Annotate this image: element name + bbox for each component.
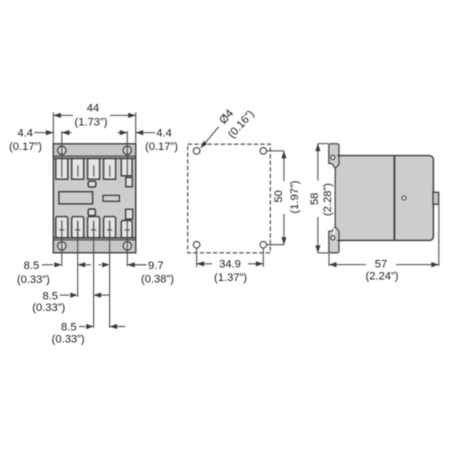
svg-text:(0.33”): (0.33”)	[52, 333, 85, 345]
arrowhead	[54, 262, 62, 267]
row1: 8.5 A-B	[42, 264, 53, 266]
bottom body line	[53, 237, 135, 239]
hole TR	[260, 148, 267, 155]
bottom hole left	[58, 242, 66, 250]
arrowhead	[128, 113, 136, 118]
body base	[53, 144, 135, 253]
hole BR	[260, 241, 267, 248]
top hole right	[123, 146, 131, 154]
label plate rect	[59, 192, 93, 204]
bottom tab hole	[331, 236, 335, 240]
plate hook edge over body, top	[335, 155, 339, 168]
small block right upper	[126, 178, 133, 187]
row1: 9.7 D-E	[99, 264, 101, 266]
svg-text:34.9: 34.9	[219, 258, 241, 270]
line D	[109, 223, 111, 328]
diameter leader	[201, 127, 219, 148]
svg-text:(1.97”): (1.97”)	[289, 180, 301, 213]
arrowhead	[315, 144, 320, 152]
hole extension lines up	[61, 131, 63, 177]
svg-text:58: 58	[309, 193, 321, 205]
50 dim	[267, 150, 284, 152]
lower slot 2	[72, 217, 84, 238]
svg-text:57: 57	[375, 259, 387, 271]
svg-text:(1.37”): (1.37”)	[214, 272, 247, 284]
arrowhead	[102, 262, 110, 267]
row3: 8.5 C-D	[79, 326, 85, 328]
svg-text:(0.33”): (0.33”)	[32, 302, 65, 314]
arrowhead	[70, 293, 78, 298]
dashed rect	[188, 144, 271, 253]
bottom tab slit	[333, 228, 335, 234]
svg-text:(0.33”): (0.33”)	[17, 274, 50, 286]
svg-text:4.4: 4.4	[17, 128, 33, 140]
arrowhead	[127, 262, 135, 267]
body	[336, 156, 433, 241]
hole BL	[193, 241, 200, 248]
arrowhead	[201, 141, 208, 148]
svg-text:8.5: 8.5	[24, 260, 40, 272]
57 dim	[328, 254, 330, 266]
bottom hole right	[123, 242, 131, 250]
arrowhead	[431, 262, 439, 267]
plate hook edge over body, bottom	[335, 227, 339, 240]
svg-text:50: 50	[273, 190, 285, 202]
svg-text:44: 44	[87, 102, 99, 114]
svg-text:(0.38”): (0.38”)	[141, 273, 174, 285]
svg-text:(1.73”): (1.73”)	[75, 117, 108, 129]
arrowhead	[78, 262, 86, 267]
lower slot 1	[56, 217, 68, 238]
line E	[126, 237, 128, 266]
row2: 8.5 B-C	[60, 294, 69, 296]
lower slot 4	[104, 217, 116, 238]
hole TL	[193, 148, 200, 155]
4.4 right leader	[118, 132, 128, 134]
svg-text:(0.17”): (0.17”)	[145, 141, 178, 153]
right tab	[433, 192, 439, 204]
bottom flange	[53, 240, 135, 253]
arrowhead	[86, 324, 94, 329]
arrowhead	[329, 262, 337, 267]
mounting plate	[329, 144, 339, 253]
line A	[61, 237, 63, 266]
svg-text:9.7: 9.7	[148, 260, 164, 272]
small block below slot 3	[88, 181, 96, 187]
34.9 dim	[196, 248, 198, 267]
arrowhead	[120, 130, 128, 135]
svg-text:4.4: 4.4	[156, 128, 172, 140]
58 dim	[318, 143, 329, 145]
arrowhead	[110, 324, 118, 329]
upper slot 1	[56, 159, 68, 180]
line C	[93, 223, 95, 328]
arrowhead	[53, 113, 61, 118]
arrowhead	[281, 151, 286, 159]
svg-text:(0.17”): (0.17”)	[9, 141, 42, 153]
upper slot 2	[72, 159, 84, 180]
upper slot 3	[88, 159, 100, 180]
44 dim line	[53, 114, 73, 116]
lower slot 5	[121, 221, 132, 238]
small label rect	[103, 195, 119, 201]
upper slot 5	[121, 159, 132, 176]
arrowhead	[315, 245, 320, 253]
svg-text:(2.24”): (2.24”)	[366, 271, 399, 283]
arrowhead	[197, 261, 205, 266]
top flange	[53, 144, 135, 156]
small block above lower slot 5	[126, 209, 133, 219]
arrowhead	[94, 293, 102, 298]
top tab hole	[331, 155, 335, 159]
small block above lower slot 3	[88, 209, 95, 216]
4.4 left leader	[34, 132, 53, 134]
svg-text:8.5: 8.5	[42, 290, 58, 302]
arrowhead	[256, 261, 264, 266]
upper slot 4	[104, 159, 116, 180]
arrowhead	[62, 130, 70, 135]
lower slot 3	[88, 217, 100, 238]
arrowhead	[46, 130, 54, 135]
svg-text:8.5: 8.5	[61, 322, 77, 334]
side circle	[402, 196, 406, 200]
divider line	[393, 156, 395, 240]
44 dim extension lines	[52, 112, 54, 143]
arrowhead	[136, 130, 144, 135]
arrowhead	[281, 237, 286, 245]
line B	[77, 223, 79, 297]
top hole left	[58, 146, 66, 154]
svg-text:(2.28”): (2.28”)	[322, 183, 334, 216]
